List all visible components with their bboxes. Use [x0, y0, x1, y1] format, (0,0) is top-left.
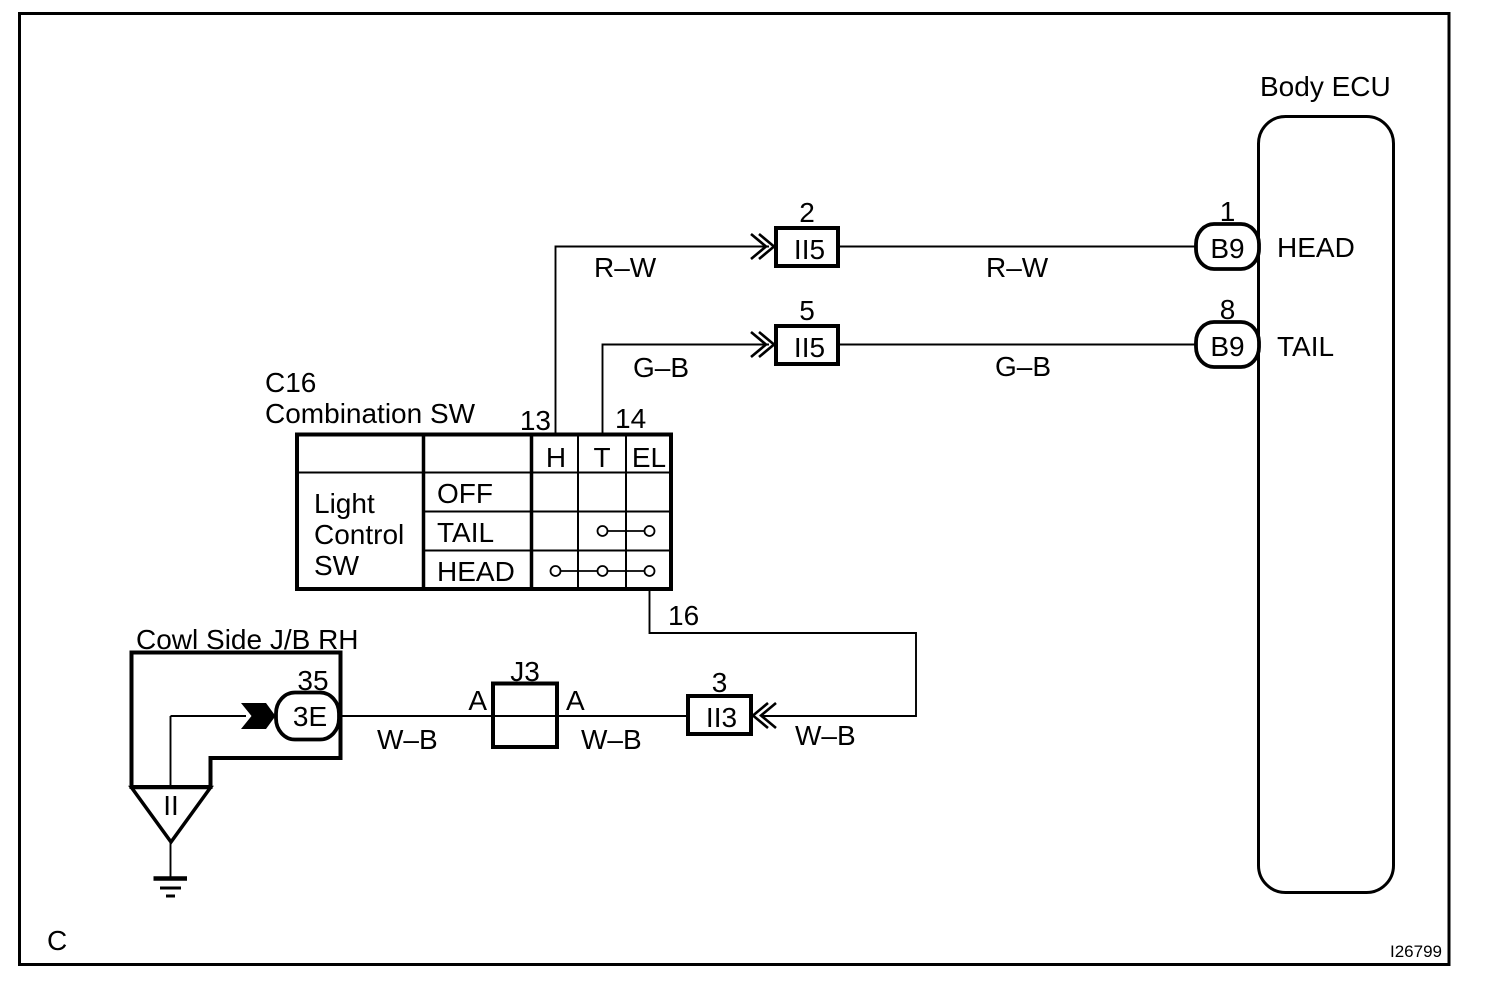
svg-text:C16: C16 [265, 367, 316, 398]
svg-text:II5: II5 [794, 332, 825, 363]
svg-text:TAIL: TAIL [1277, 331, 1334, 362]
svg-text:I26799: I26799 [1390, 942, 1442, 961]
svg-text:SW: SW [314, 550, 360, 581]
svg-text:8: 8 [1220, 294, 1236, 325]
svg-text:TAIL: TAIL [437, 517, 494, 548]
svg-text:G–B: G–B [633, 352, 689, 383]
svg-text:II5: II5 [794, 234, 825, 265]
svg-text:16: 16 [668, 600, 699, 631]
svg-text:35: 35 [297, 665, 328, 696]
svg-text:G–B: G–B [995, 351, 1051, 382]
svg-text:R–W: R–W [594, 252, 657, 283]
svg-text:A: A [468, 685, 487, 716]
svg-text:Combination SW: Combination SW [265, 398, 476, 429]
svg-text:W–B: W–B [795, 720, 856, 751]
svg-text:HEAD: HEAD [1277, 232, 1355, 263]
svg-text:Light: Light [314, 488, 375, 519]
svg-text:3E: 3E [293, 701, 327, 732]
svg-text:13: 13 [520, 405, 551, 436]
svg-text:T: T [593, 442, 610, 473]
svg-text:W–B: W–B [377, 724, 438, 755]
svg-text:II: II [163, 790, 179, 821]
svg-text:B9: B9 [1210, 233, 1244, 264]
svg-text:B9: B9 [1210, 331, 1244, 362]
svg-text:Control: Control [314, 519, 404, 550]
svg-text:EL: EL [632, 442, 666, 473]
svg-text:5: 5 [799, 295, 815, 326]
svg-text:J3: J3 [510, 656, 540, 687]
svg-text:II3: II3 [706, 702, 737, 733]
svg-text:C: C [47, 925, 67, 956]
svg-text:1: 1 [1220, 196, 1236, 227]
svg-text:3: 3 [712, 667, 728, 698]
svg-text:H: H [546, 442, 566, 473]
svg-text:14: 14 [615, 403, 646, 434]
svg-text:R–W: R–W [986, 252, 1049, 283]
svg-text:W–B: W–B [581, 724, 642, 755]
svg-text:A: A [566, 685, 585, 716]
svg-text:OFF: OFF [437, 478, 493, 509]
svg-text:Cowl Side J/B RH: Cowl Side J/B RH [136, 624, 359, 655]
svg-text:2: 2 [799, 197, 815, 228]
svg-text:Body ECU: Body ECU [1260, 71, 1391, 102]
svg-text:HEAD: HEAD [437, 556, 515, 587]
